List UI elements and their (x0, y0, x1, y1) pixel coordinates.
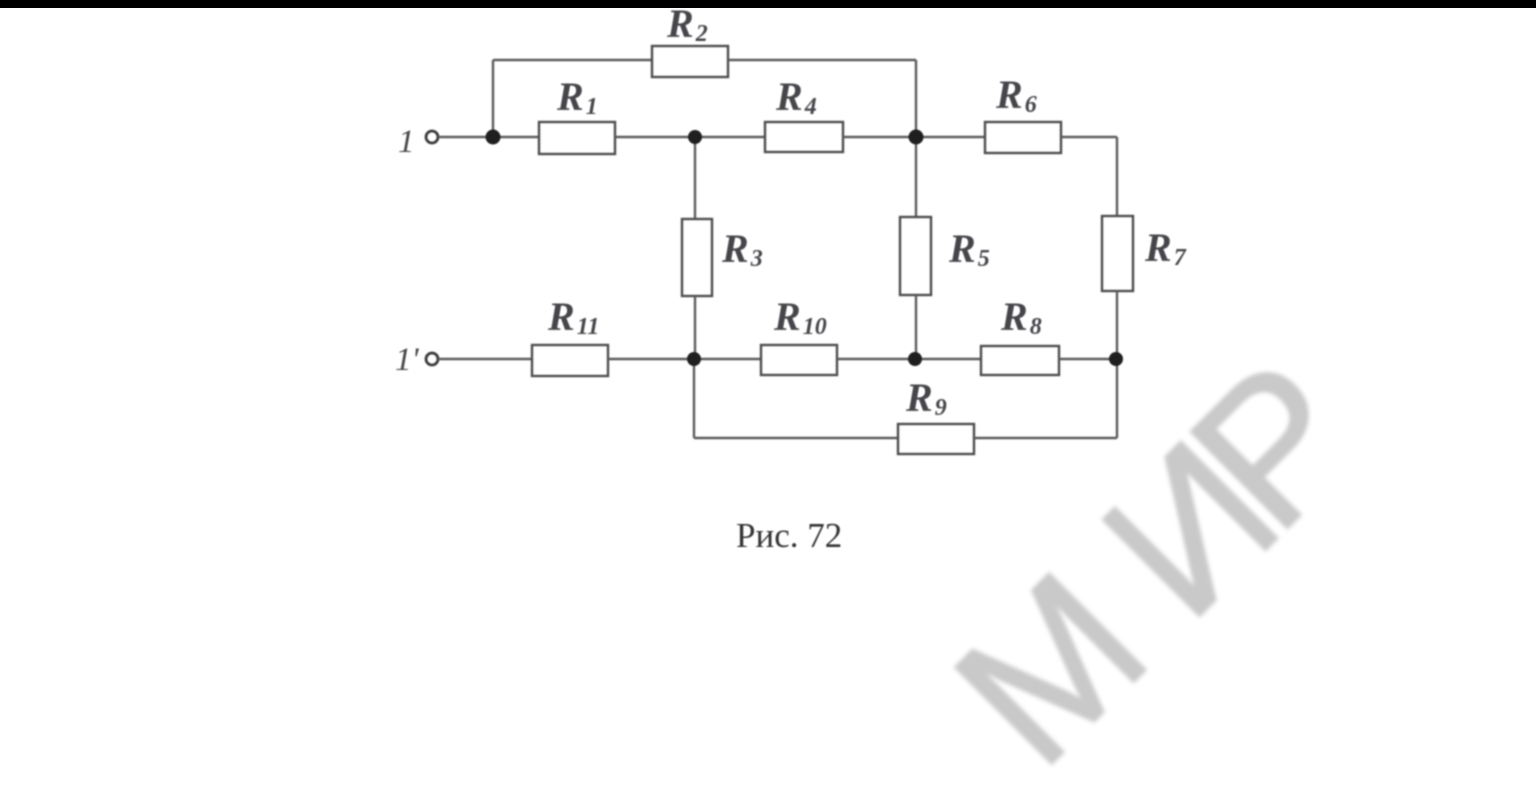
wire node A to R1 (493, 136, 539, 138)
node C junction dot (909, 130, 924, 145)
wire up to node F (1116, 359, 1118, 438)
svg-text:R1: R1 (556, 74, 598, 120)
wire R6 to top-right corner (1061, 136, 1117, 138)
wire node B down to R3 (694, 137, 696, 219)
svg-text:R3: R3 (721, 226, 763, 272)
svg-text:R5: R5 (948, 226, 990, 272)
svg-text:Рис. 72: Рис. 72 (736, 516, 842, 555)
node A junction dot (486, 130, 501, 145)
wire R3 to node D (694, 296, 696, 359)
wire R10 to node E (837, 358, 915, 360)
wire node C down to R5 (915, 137, 917, 217)
wire node A up to R2 row (492, 60, 494, 137)
svg-text:1: 1 (398, 124, 415, 160)
wire node B to R4 (695, 136, 765, 138)
wire node E to R8 (915, 358, 981, 360)
resistor R10 body (761, 345, 837, 375)
terminal 1' (426, 353, 438, 365)
wire node D to R10 (694, 358, 761, 360)
wire R2 right to top-right corner (728, 59, 916, 61)
wire to R2 left (493, 59, 652, 61)
wire down to node C (915, 60, 917, 137)
resistor R3 body (682, 219, 712, 296)
resistor R5 body (900, 217, 931, 295)
wire node C to R6 (916, 136, 985, 138)
top black bar (0, 0, 1536, 8)
svg-text:R11: R11 (547, 294, 599, 340)
resistor R7 body (1102, 216, 1133, 291)
wire R7 to node F (1116, 291, 1118, 359)
wire terminal1 to node A (438, 136, 493, 138)
svg-text:1': 1' (395, 342, 420, 378)
resistor R11 body (532, 345, 608, 376)
node E junction dot (908, 352, 922, 366)
node B junction dot (688, 130, 702, 144)
resistor R4 body (765, 122, 843, 152)
resistor R6 body (985, 122, 1061, 153)
wire terminal 1' to R11 (438, 358, 532, 360)
terminal 1 (426, 131, 438, 143)
resistor R9 body (898, 424, 974, 454)
wire R4 to node C (843, 136, 916, 138)
watermark (930, 317, 1401, 788)
wire R1 to node B (615, 136, 695, 138)
node D junction dot (687, 352, 701, 366)
svg-text:R9: R9 (905, 375, 947, 421)
svg-text:R8: R8 (1000, 294, 1042, 340)
resistor R1 body (539, 122, 615, 154)
wire down to R7 (1116, 137, 1118, 216)
wire R5 to node E (915, 295, 917, 359)
svg-text:R7: R7 (1144, 225, 1187, 271)
svg-text:R2: R2 (666, 1, 708, 47)
resistor R2 body (652, 46, 728, 77)
svg-text:R6: R6 (995, 72, 1037, 118)
wire R8 to node F (1059, 358, 1117, 360)
wire R9 right to corner (974, 437, 1117, 439)
node F junction dot (1109, 352, 1123, 366)
wire R11 to node D (608, 358, 694, 360)
svg-text:R4: R4 (775, 74, 817, 120)
wire to R9 left (694, 437, 898, 439)
svg-text:R10: R10 (773, 294, 827, 340)
wire node D down to R9 row (693, 359, 695, 438)
resistor R8 body (981, 346, 1059, 375)
